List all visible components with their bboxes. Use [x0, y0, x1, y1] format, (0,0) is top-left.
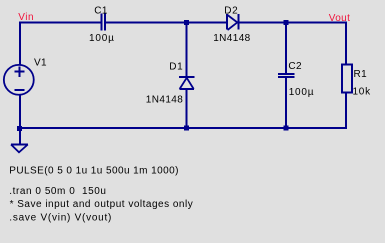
svg-text:.tran 0 50m 0 150u: .tran 0 50m 0 150u [9, 186, 106, 197]
svg-text:1N4148: 1N4148 [213, 33, 250, 44]
svg-text:100µ: 100µ [89, 33, 115, 44]
svg-text:D1: D1 [169, 61, 183, 72]
svg-text:R1: R1 [354, 69, 368, 80]
svg-text:C1: C1 [94, 5, 108, 16]
svg-text:C2: C2 [288, 61, 302, 72]
svg-text:10k: 10k [353, 86, 372, 97]
svg-text:* Save input and output voltag: * Save input and output voltages only [10, 199, 194, 210]
svg-text:100µ: 100µ [289, 87, 315, 98]
svg-text:PULSE(0 5 0 1u 1u 500u 1m 1000: PULSE(0 5 0 1u 1u 500u 1m 1000) [9, 166, 179, 177]
svg-text:V1: V1 [34, 57, 47, 68]
svg-text:Vin: Vin [18, 12, 34, 23]
svg-text:D2: D2 [224, 5, 238, 16]
svg-text:1N4148: 1N4148 [146, 94, 183, 105]
svg-text:Vout: Vout [329, 13, 350, 24]
svg-text:.save V(vin) V(vout): .save V(vin) V(vout) [9, 212, 112, 223]
